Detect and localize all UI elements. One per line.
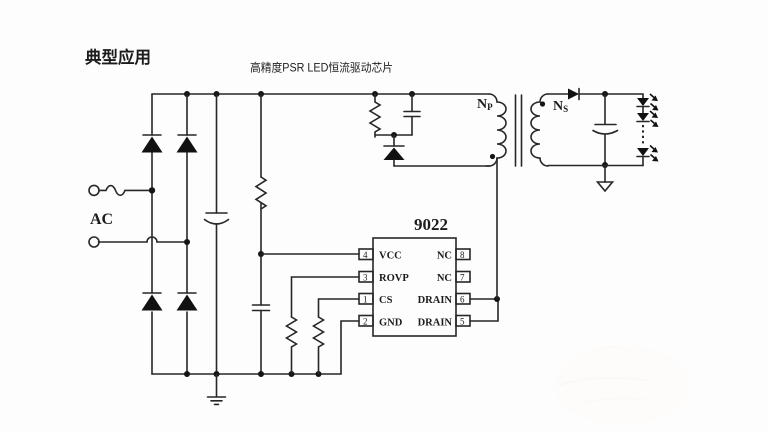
wire: AC neutral with hop over D1 column — [99, 237, 188, 242]
capacitor C1 (bulk electrolytic) — [205, 213, 229, 224]
capacitor C3 (snubber) — [404, 94, 420, 135]
svg-text:7: 7 — [460, 273, 465, 283]
resistor R4 (snubber) — [370, 94, 380, 137]
node: bottom rail at ground — [214, 371, 220, 377]
node: bottom rail at C2 — [258, 371, 264, 377]
diode D1 — [142, 135, 163, 153]
wire: output top rail — [579, 93, 643, 95]
resistor R3 (CS sense) — [314, 317, 324, 374]
svg-text:NC: NC — [437, 273, 452, 284]
transformer T1 primary winding Np — [486, 94, 506, 166]
wire: drain vertical to transformer — [496, 158, 498, 299]
svg-text:9022: 9022 — [414, 215, 448, 234]
node: top rail junction at snubber C3 — [409, 91, 415, 97]
svg-text:典型应用: 典型应用 — [85, 47, 151, 67]
node: top rail junction at snubber R4 — [372, 91, 378, 97]
wire: dotted LED continuation — [642, 125, 644, 146]
diode D3 — [142, 293, 163, 311]
svg-text:GND: GND — [379, 318, 403, 329]
pin 7 box — [456, 272, 470, 283]
resistor R2 (ROVP) — [287, 317, 297, 374]
wire: snubber bottom — [375, 134, 412, 136]
diode D2 — [177, 135, 198, 153]
svg-text:CS: CS — [379, 295, 393, 306]
svg-text:NC: NC — [437, 251, 452, 262]
transformer T1 secondary winding Ns — [531, 94, 548, 166]
wire: CS to R3 — [319, 299, 360, 317]
node: top rail junction at D2 — [184, 91, 190, 97]
wire: LED string right side — [642, 94, 644, 166]
wire: VCC to pin 4 — [261, 253, 359, 255]
transformer core — [516, 95, 522, 166]
pin 8 box — [456, 249, 470, 260]
wire: pin 6 to drain node — [470, 298, 497, 300]
pin 4 box — [359, 249, 373, 260]
node: bottom rail at D4 — [184, 371, 190, 377]
svg-text:6: 6 — [460, 295, 465, 305]
svg-text:4: 4 — [363, 250, 368, 260]
fuse F1 — [99, 186, 125, 196]
node: VCC branch — [258, 251, 264, 257]
diode D6 (output rectifier) — [568, 89, 579, 100]
diode D4 — [177, 293, 198, 311]
LED1 — [637, 94, 659, 111]
wire: ROVP to R2 — [292, 277, 360, 317]
op-amp U1 9022 body — [373, 238, 456, 336]
terminal: AC live — [89, 185, 99, 195]
svg-text:DRAIN: DRAIN — [418, 318, 453, 329]
capacitor C4 (output) — [593, 94, 618, 165]
node: AC live junction — [149, 187, 155, 193]
pin 2 box — [359, 316, 373, 327]
LED2 — [637, 111, 659, 127]
wire: pin 5 up to drain node — [470, 299, 498, 321]
node: top rail junction at C1 — [214, 91, 220, 97]
node: snubber/diode junction — [391, 132, 397, 138]
node: bottom rail at R2 — [289, 371, 295, 377]
node: primary phase dot — [490, 154, 495, 159]
svg-text:2: 2 — [363, 317, 368, 327]
svg-text:DRAIN: DRAIN — [418, 295, 453, 306]
pin 3 box — [359, 272, 373, 283]
node: output cap junction top — [602, 91, 608, 97]
wire: D1 column — [151, 94, 153, 374]
svg-text:AC: AC — [90, 211, 113, 228]
node: secondary phase dot — [540, 101, 545, 106]
wire: bottom rail — [152, 373, 341, 375]
svg-text:VCC: VCC — [379, 251, 402, 262]
svg-text:高精度PSR LED恒流驱动芯片: 高精度PSR LED恒流驱动芯片 — [250, 61, 393, 75]
node: output cap junction bottom — [602, 162, 608, 168]
svg-text:1: 1 — [363, 295, 368, 305]
wire: GND pin to bottom rail — [341, 321, 359, 374]
LED3 — [637, 146, 659, 162]
wire: AC live to bridge — [125, 189, 152, 191]
node: drain junction — [494, 296, 500, 302]
wire: clamp to primary bottom — [394, 165, 490, 167]
node: AC neutral junction — [184, 239, 190, 245]
wire: D2 column — [186, 94, 188, 374]
node: bottom rail at R3 — [316, 371, 322, 377]
wire: C1 column — [216, 94, 218, 374]
faint watermark — [554, 345, 690, 425]
wire: secondary top to output diode — [548, 93, 568, 95]
ground (secondary) — [598, 165, 613, 191]
svg-text:8: 8 — [460, 250, 465, 260]
capacitor C2 (VCC) — [253, 305, 270, 311]
pin 5 box — [456, 316, 470, 327]
pin 1 box — [359, 294, 373, 305]
wire: output bottom rail — [548, 165, 643, 167]
svg-text:ROVP: ROVP — [379, 273, 409, 284]
diode D5 (clamp) — [384, 135, 405, 166]
wire: R1/C2 column — [260, 94, 262, 374]
resistor R1 (startup) — [256, 177, 266, 209]
pin 6 box — [456, 294, 470, 305]
terminal: AC neutral — [89, 237, 99, 247]
svg-text:5: 5 — [460, 317, 465, 327]
svg-text:3: 3 — [363, 273, 368, 283]
wire: top rail — [152, 93, 489, 95]
node: top rail junction at R1 — [258, 91, 264, 97]
ground (primary) — [208, 374, 226, 404]
